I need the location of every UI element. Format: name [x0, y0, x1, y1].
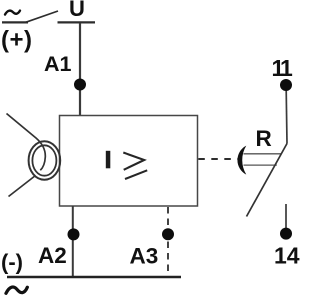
svg-text:U: U — [69, 0, 85, 21]
svg-text:(-): (-) — [1, 250, 23, 275]
svg-text:A2: A2 — [38, 243, 67, 268]
svg-text:11: 11 — [272, 55, 294, 81]
svg-text:R: R — [256, 126, 272, 151]
svg-text:A3: A3 — [130, 243, 159, 268]
svg-text:A1: A1 — [44, 52, 72, 76]
svg-text:14: 14 — [274, 242, 300, 268]
svg-text:(+): (+) — [1, 27, 33, 54]
